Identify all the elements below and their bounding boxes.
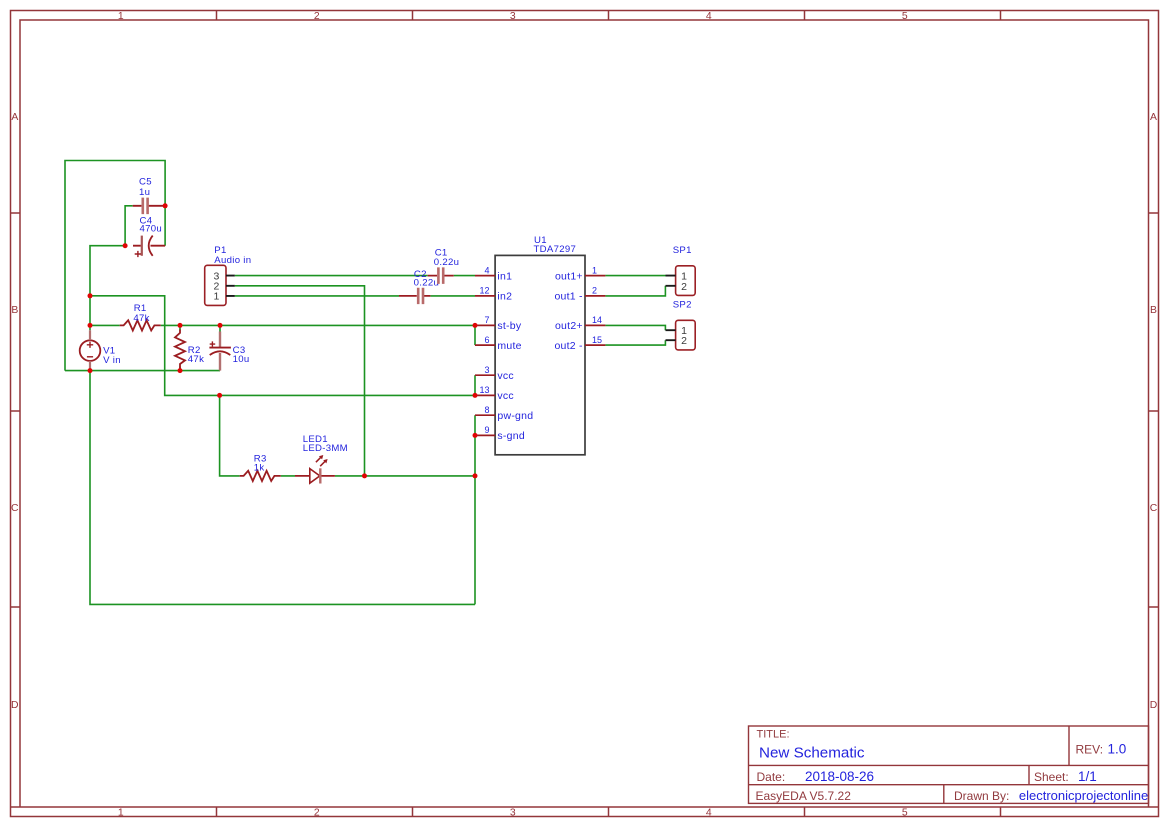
svg-text:V in: V in — [103, 355, 121, 366]
svg-text:s-gnd: s-gnd — [497, 430, 525, 442]
svg-text:47k: 47k — [188, 354, 204, 365]
junction: st-by pin node — [473, 323, 478, 328]
svg-text:1u: 1u — [139, 187, 150, 198]
svg-text:2: 2 — [681, 281, 687, 293]
svg-text:Drawn By:: Drawn By: — [954, 789, 1009, 803]
wire: P1 pin3 to C1 to in1 — [235, 275, 475, 277]
capacitor C5 — [133, 198, 165, 215]
wire: vcc to R3 branch — [220, 395, 475, 476]
svg-text:Audio in: Audio in — [214, 255, 251, 266]
junction: C5 right node — [163, 203, 168, 208]
svg-text:12: 12 — [479, 286, 489, 296]
svg-text:2: 2 — [314, 808, 320, 819]
svg-text:D: D — [11, 700, 19, 711]
svg-text:st-by: st-by — [497, 320, 522, 332]
label SP1 pin numbers — [681, 271, 687, 293]
svg-text:2018-08-26: 2018-08-26 — [805, 769, 874, 784]
svg-text:47k: 47k — [133, 313, 149, 324]
connector SP2 — [666, 320, 696, 350]
svg-text:EasyEDA V5.7.22: EasyEDA V5.7.22 — [756, 789, 852, 803]
svg-text:4: 4 — [706, 808, 712, 819]
label SP2 name — [673, 300, 692, 311]
label R1 name/value — [133, 303, 149, 324]
svg-text:B: B — [11, 305, 18, 316]
junction: V1 plus node — [88, 323, 93, 328]
label C3 name/value — [233, 345, 250, 365]
svg-text:14: 14 — [592, 315, 602, 325]
svg-text:REV:: REV: — [1076, 743, 1104, 757]
svg-text:13: 13 — [479, 385, 489, 395]
svg-text:5: 5 — [902, 808, 908, 819]
junction: LED output node — [473, 473, 478, 478]
svg-text:3: 3 — [484, 365, 489, 375]
svg-text:C: C — [1150, 503, 1158, 514]
wire: st-by net horizontal — [90, 324, 475, 326]
junction: C4 left node — [123, 243, 128, 248]
svg-text:out2+: out2+ — [555, 320, 583, 332]
capacitor C3 (polarized) — [209, 332, 231, 371]
IC U1 TDA7297 — [475, 255, 605, 454]
voltage source V1 — [80, 330, 101, 370]
svg-text:out2 -: out2 - — [554, 340, 583, 352]
label C4 name/value — [140, 215, 163, 234]
junction: R2 top node — [178, 323, 183, 328]
label V1 name/value — [103, 345, 121, 365]
junction: vcc corner node — [88, 293, 93, 298]
wire: V1 plus column — [89, 296, 91, 371]
svg-text:2: 2 — [314, 11, 320, 22]
svg-text:0.22u: 0.22u — [434, 257, 460, 268]
svg-text:7: 7 — [484, 315, 489, 325]
label U1 pin names — [497, 270, 533, 442]
svg-text:5: 5 — [902, 11, 908, 22]
svg-text:1: 1 — [592, 265, 597, 275]
wire: P1 pin2 to mute RC node — [235, 286, 365, 476]
label U1 name/value — [534, 235, 577, 255]
connector P1 — [205, 265, 235, 305]
wire: gnd wire under V1/R2/C3 — [65, 325, 220, 370]
svg-text:TDA7297: TDA7297 — [534, 244, 577, 255]
svg-text:out1+: out1+ — [555, 270, 583, 282]
svg-text:pw-gnd: pw-gnd — [497, 410, 533, 422]
svg-text:Date:: Date: — [757, 770, 786, 784]
resistor R3 — [240, 471, 281, 481]
svg-text:A: A — [11, 112, 18, 123]
svg-text:A: A — [1150, 112, 1157, 123]
svg-text:in2: in2 — [497, 291, 512, 303]
resistor R2 — [175, 330, 185, 370]
svg-text:470u: 470u — [140, 223, 163, 234]
wire: ground bottom rail — [90, 371, 475, 605]
svg-text:2: 2 — [592, 286, 597, 296]
resistor R1 — [120, 320, 161, 330]
wire: out2- to SP2 pin2 — [605, 340, 665, 345]
wire: pw-gnd/s-gnd down column — [474, 415, 476, 604]
wire: st-by to mute jumper — [474, 325, 476, 345]
junction: C3 top node — [218, 323, 223, 328]
label R2 name/value — [188, 345, 204, 365]
svg-text:SP1: SP1 — [673, 245, 692, 256]
wire: V+ top loop from left rail to C5/C4 right node — [65, 161, 165, 371]
capacitor C4 (polarized) — [133, 236, 165, 258]
svg-text:C: C — [11, 503, 19, 514]
svg-text:electronicprojectonline: electronicprojectonline — [1019, 788, 1148, 803]
label SP1 name — [673, 245, 692, 256]
wire: out2+ to SP2 pin1 — [605, 325, 665, 330]
wire: vcc net to pin 13 — [90, 296, 475, 396]
connector SP1 — [666, 266, 696, 296]
svg-text:SP2: SP2 — [673, 300, 692, 311]
junction: R3 branch node — [217, 393, 222, 398]
svg-text:vcc: vcc — [497, 370, 514, 382]
label R3 name/value — [254, 453, 267, 473]
svg-text:1: 1 — [213, 291, 219, 303]
wire: C5 parallel branch — [125, 206, 133, 246]
svg-text:B: B — [1150, 305, 1157, 316]
svg-text:4: 4 — [484, 265, 489, 275]
svg-text:15: 15 — [592, 335, 602, 345]
svg-text:1k: 1k — [254, 462, 265, 473]
svg-text:4: 4 — [706, 11, 712, 22]
LED LED1 — [295, 455, 335, 484]
junction: s-gnd pin node — [473, 433, 478, 438]
wire: out1- to SP1 pin2 — [605, 286, 665, 296]
junction: R2 bottom node — [178, 368, 183, 373]
svg-text:6: 6 — [484, 335, 489, 345]
capacitor C1 — [428, 267, 454, 284]
wire: vcc pin3 jumper — [474, 375, 476, 395]
junction: vcc pin13 node — [473, 393, 478, 398]
svg-text:Sheet:: Sheet: — [1034, 770, 1069, 784]
label P1 name — [214, 245, 251, 266]
svg-text:TITLE:: TITLE: — [757, 729, 790, 741]
junction: V1 minus node — [88, 368, 93, 373]
svg-text:1.0: 1.0 — [1108, 742, 1127, 757]
svg-text:0.22u: 0.22u — [414, 277, 440, 288]
svg-text:out1 -: out1 - — [554, 291, 583, 303]
svg-text:1/1: 1/1 — [1078, 769, 1097, 784]
svg-text:2: 2 — [681, 335, 687, 347]
label C5 name/value — [139, 177, 152, 198]
wire: C4 left node to junction column — [90, 246, 125, 296]
label P1 pin numbers — [213, 270, 219, 302]
svg-text:New Schematic: New Schematic — [759, 744, 865, 761]
capacitor C2 — [399, 288, 430, 304]
svg-text:10u: 10u — [233, 354, 250, 365]
svg-text:8: 8 — [484, 405, 489, 415]
svg-text:1: 1 — [118, 808, 124, 819]
svg-text:3: 3 — [510, 11, 516, 22]
svg-text:mute: mute — [497, 340, 521, 352]
label U1 pin numbers — [479, 265, 489, 435]
svg-text:1: 1 — [118, 11, 124, 22]
svg-text:3: 3 — [510, 808, 516, 819]
svg-text:in1: in1 — [497, 270, 512, 282]
svg-text:9: 9 — [484, 425, 489, 435]
label C2 name/value — [414, 269, 440, 289]
label SP2 pin numbers — [681, 325, 687, 347]
wire: out1+ to SP1 pin1 — [605, 275, 665, 277]
svg-text:D: D — [1150, 700, 1158, 711]
svg-text:LED-3MM: LED-3MM — [303, 443, 348, 454]
junction: mute RC node — [362, 473, 367, 478]
label C1 name/value — [434, 248, 460, 269]
wire: P1 pin1 to C2 to in2 — [235, 295, 475, 297]
svg-text:vcc: vcc — [497, 390, 514, 402]
label LED1 name/value — [303, 434, 348, 454]
